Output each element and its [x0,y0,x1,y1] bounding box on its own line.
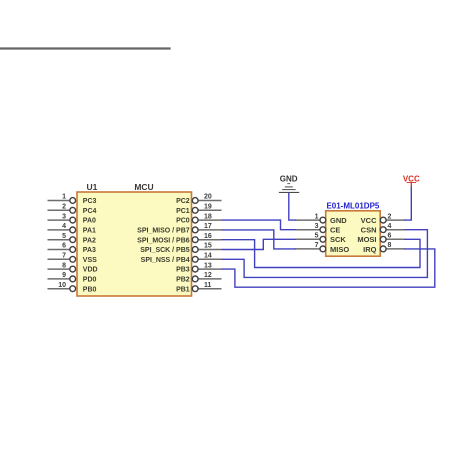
svg-text:PA0: PA0 [83,218,96,225]
U1 pin 16 SPI_MOSI/PB6 [137,233,221,244]
U1 pin 4 PA1 [48,223,97,234]
U1 pin 9 PD0 [48,272,97,283]
U1 pin 15 SPI_SCK/PB5 [140,243,221,254]
svg-text:PA1: PA1 [83,228,96,235]
svg-text:20: 20 [204,194,212,201]
svg-text:SPI_MOSI / PB6: SPI_MOSI / PB6 [137,237,190,244]
svg-text:E01-ML01DP5: E01-ML01DP5 [326,202,379,211]
svg-text:PB1: PB1 [176,286,190,293]
U1 pin 8 VDD [48,262,98,273]
svg-text:14: 14 [204,253,212,260]
svg-text:4: 4 [388,223,392,230]
svg-text:12: 12 [204,272,212,279]
U2 pin 8 IRQ [363,242,405,254]
svg-text:6: 6 [62,243,66,250]
U2 pin 3 CE [296,223,341,235]
svg-text:19: 19 [204,204,212,211]
U2 pin 1 GND [296,213,348,225]
svg-text:PB2: PB2 [176,277,190,284]
svg-text:17: 17 [204,223,212,230]
U2 pin 7 MISO [296,242,350,254]
power port VCC [403,174,420,187]
U1 pin 18 PC0 [176,213,221,224]
svg-text:7: 7 [62,253,66,260]
svg-text:8: 8 [388,242,392,249]
U2 pin 2 VCC [361,213,405,225]
wire VCC net to U2 pin2 [404,187,411,221]
svg-text:SPI_MISO / PB7: SPI_MISO / PB7 [137,228,190,235]
svg-text:1: 1 [62,194,66,201]
svg-text:GND: GND [330,216,347,225]
svg-text:PC2: PC2 [176,198,190,205]
U2 pin 5 SCK [296,233,347,245]
svg-text:MISO: MISO [330,245,349,254]
U1 pin 2 PC4 [48,204,97,215]
U1 pin 5 PA2 [48,233,97,244]
ground power port GND [279,174,299,193]
svg-text:PC3: PC3 [83,198,97,205]
svg-text:PA2: PA2 [83,237,96,244]
U2 pin 6 MOSI [357,233,404,245]
svg-text:8: 8 [62,262,66,269]
MCU U1 body [77,182,192,296]
svg-text:MOSI: MOSI [357,235,376,244]
U1 pin 7 VSS [48,253,98,264]
svg-text:1: 1 [315,213,319,220]
svg-text:18: 18 [204,213,212,220]
U1 pin 12 PB2 [176,272,221,283]
svg-text:13: 13 [204,262,212,269]
svg-text:SPI_NSS / PB4: SPI_NSS / PB4 [141,257,190,264]
svg-text:5: 5 [315,233,319,240]
svg-text:VCC: VCC [403,174,420,183]
svg-text:CE: CE [330,226,340,235]
svg-text:PC4: PC4 [83,208,97,215]
svg-text:3: 3 [315,223,319,230]
svg-text:2: 2 [388,213,392,220]
svg-text:PC0: PC0 [176,218,190,225]
svg-text:PB3: PB3 [176,267,190,274]
svg-text:10: 10 [58,282,66,289]
svg-text:SCK: SCK [330,235,346,244]
wire net SPI_SCK to SCK [222,239,297,249]
U1 pin 14 SPI_NSS/PB4 [141,253,222,264]
svg-text:16: 16 [204,233,212,240]
svg-text:PA3: PA3 [83,247,96,254]
wire net SPI_MOSI to MOSI [222,239,421,267]
wire GND net to U2 pin1 [289,193,296,220]
svg-text:VSS: VSS [83,257,97,264]
U1 pin 10 PB0 [48,282,97,293]
svg-text:VDD: VDD [83,267,98,274]
U1 pin 20 PC2 [176,194,221,205]
svg-text:6: 6 [388,233,392,240]
U1 pin 11 PB1 [176,282,221,293]
wire net SPI_NSS to CSN [222,230,428,278]
U1 pin 17 SPI_MISO/PB7 [137,223,221,234]
svg-text:PC1: PC1 [176,208,190,215]
svg-text:5: 5 [62,233,66,240]
svg-text:U1: U1 [87,182,98,192]
svg-text:CSN: CSN [361,226,377,235]
svg-text:7: 7 [315,242,319,249]
U1 pin 13 PB3 [176,262,221,273]
wire net SPI_MISO to MISO [222,230,297,249]
svg-text:PB0: PB0 [83,286,97,293]
U2 pin 4 CSN [361,223,405,235]
U1 pin 19 PC1 [176,204,221,215]
svg-text:3: 3 [62,213,66,220]
svg-text:SPI_SCK / PB5: SPI_SCK / PB5 [140,247,190,254]
svg-text:15: 15 [204,243,212,250]
svg-text:IRQ: IRQ [363,245,377,254]
svg-text:VCC: VCC [361,216,377,225]
svg-text:PD0: PD0 [83,277,97,284]
U1 pin 6 PA3 [48,243,97,254]
U1 pin 1 PC3 [48,194,97,205]
svg-text:4: 4 [62,223,66,230]
svg-text:9: 9 [62,272,66,279]
svg-text:11: 11 [204,282,212,289]
U1 pin 3 PA0 [48,213,97,224]
wire net PB3 to IRQ [222,249,435,287]
svg-text:MCU: MCU [134,182,153,192]
svg-text:GND: GND [280,174,298,183]
wire net PC0 to CE [222,220,297,230]
svg-text:2: 2 [62,204,66,211]
module U2 E01-ML01DP5 body [326,202,381,257]
